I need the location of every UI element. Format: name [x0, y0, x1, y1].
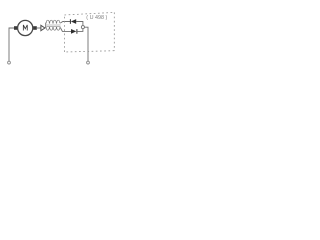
wire [60, 27, 71, 31]
wire [76, 22, 83, 26]
terminal square [33, 26, 37, 30]
node link [45, 23, 47, 29]
svg-text:( U 498 ): ( U 498 ) [86, 15, 107, 21]
choke bottom winding [46, 27, 60, 30]
choke top winding [46, 20, 60, 23]
terminal circle [87, 61, 90, 64]
wire [9, 28, 14, 61]
motor label M [23, 25, 27, 31]
connector plug [41, 25, 45, 30]
wire [77, 29, 83, 32]
terminal circle [8, 61, 11, 64]
diode V1 [70, 19, 76, 24]
wire [84, 27, 88, 61]
control unit box U498 (dashed) [64, 12, 114, 52]
motor M1 [18, 20, 33, 35]
terminal square [14, 26, 18, 30]
core [47, 25, 61, 26]
wire [37, 27, 41, 29]
junction circle [81, 26, 84, 29]
wire [60, 22, 70, 24]
diode V2 [71, 29, 77, 34]
